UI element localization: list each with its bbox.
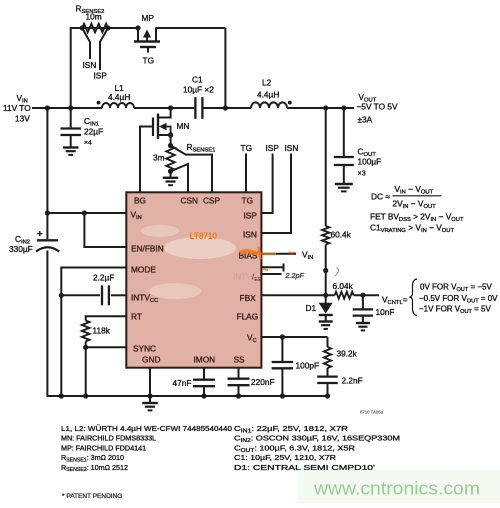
svg-text:220nF: 220nF bbox=[251, 377, 275, 387]
capacitor 2.2nF on VC bbox=[317, 368, 362, 396]
wire top boost rail y=28 bbox=[71, 28, 226, 108]
wire ISP net to IC pin ISP bbox=[261, 154, 272, 214]
svg-text:RT: RT bbox=[131, 312, 142, 322]
svg-text:GND: GND bbox=[142, 355, 160, 365]
capacitor 220nF on SS bbox=[228, 368, 275, 396]
wire kelvin CSP from RSENSE1 top bbox=[171, 146, 213, 193]
transistor MN NMOS bbox=[153, 108, 189, 139]
wire FBX pin line bbox=[261, 294, 334, 296]
node junction VIN pin line left bbox=[45, 210, 50, 215]
svg-text:C1: 10µF, 25V, 1210, X7R: C1: 10µF, 25V, 1210, X7R bbox=[234, 453, 336, 462]
resistor 118k on RT bbox=[82, 321, 111, 342]
resistor 60.4k bbox=[322, 226, 352, 245]
watermark orange mark near INTVEE bbox=[262, 269, 268, 270]
svg-text:×3: ×3 bbox=[358, 169, 366, 178]
wire GND pin to ground rail bbox=[149, 368, 151, 396]
wire ISP kelvin stub from RSENSE2 bbox=[100, 28, 108, 70]
node junction 60.4k column top bbox=[323, 105, 328, 110]
node junction EN/FBIN takeoff bbox=[82, 210, 87, 215]
node junction 100pF on VC bbox=[280, 334, 285, 339]
ground symbol main bbox=[142, 396, 158, 410]
resistor 6.04k bbox=[333, 281, 354, 299]
capacitor COUT 100uF x3 bbox=[334, 108, 381, 184]
svg-text:4.4µH: 4.4µH bbox=[257, 90, 279, 100]
watermark orange scribble over BIAS bbox=[240, 247, 295, 260]
node junction GND pin on rail bbox=[147, 393, 152, 398]
capacitor C1 10uF x2 bbox=[183, 75, 214, 119]
wire ISN net to IC pin ISN bbox=[261, 154, 291, 234]
svg-text:ISP: ISP bbox=[94, 71, 108, 81]
svg-text:BG: BG bbox=[134, 196, 146, 206]
svg-text:±3A: ±3A bbox=[358, 115, 373, 125]
wire VOUT to 60.4k column bbox=[325, 108, 327, 226]
node junction 100pF on ground rail bbox=[280, 393, 285, 398]
svg-text:MP: FAIRCHILD FDD4141: MP: FAIRCHILD FDD4141 bbox=[61, 443, 146, 452]
diode D1 bbox=[306, 295, 333, 315]
capacitor 2.2pF on INTVEE (watermark damaged) bbox=[262, 264, 304, 281]
ground below RSENSE1 bbox=[163, 171, 179, 185]
node junction ground rail x=85 bbox=[83, 393, 88, 398]
svg-text:10m: 10m bbox=[86, 12, 102, 22]
capacitor 10nF on VCNTL bbox=[353, 295, 395, 322]
node junction RSENSE1 top bbox=[168, 143, 173, 148]
wire ISN kelvin stub from RSENSE2 bbox=[82, 28, 90, 59]
ground below CIN1 bbox=[63, 146, 78, 148]
svg-text:FET BVDSS > 2VIN − VOUT: FET BVDSS > 2VIN − VOUT bbox=[370, 212, 464, 224]
svg-text:2.2µF: 2.2µF bbox=[93, 273, 114, 283]
node junction MN drain on rail bbox=[168, 105, 173, 110]
svg-text:100pF: 100pF bbox=[296, 361, 320, 371]
svg-text:39.2k: 39.2k bbox=[337, 349, 358, 359]
capacitor CIN1 22uF x4 bbox=[60, 108, 103, 147]
svg-text:EN/FBIN: EN/FBIN bbox=[131, 244, 164, 254]
svg-text:C1: C1 bbox=[192, 75, 203, 85]
node DC duty-cycle formula bbox=[371, 184, 442, 210]
svg-text:ISN: ISN bbox=[243, 230, 257, 240]
wire VC pin line bbox=[261, 337, 327, 347]
node junction COUT on rail bbox=[341, 105, 346, 110]
svg-text:FLAG: FLAG bbox=[237, 312, 259, 322]
svg-text:MODE: MODE bbox=[131, 265, 156, 275]
watermark www.cntronics.com bbox=[298, 470, 500, 503]
svg-text:3m: 3m bbox=[153, 153, 165, 163]
resistor RSENSE1 3m bbox=[153, 142, 215, 171]
inductor L2 4.4uH bbox=[251, 78, 292, 109]
svg-text:SS: SS bbox=[234, 355, 246, 365]
svg-text:×4: ×4 bbox=[84, 140, 92, 147]
resistor 39.2k on VC bbox=[324, 347, 358, 368]
wire 118k bottom to SYNC line bbox=[85, 341, 87, 347]
svg-text:330µF: 330µF bbox=[9, 244, 33, 254]
svg-text:CSN: CSN bbox=[181, 196, 199, 206]
wire kelvin CSN from RSENSE1 bottom bbox=[171, 164, 189, 192]
node junction CIN1 on rail bbox=[68, 105, 73, 110]
node VCNTL brace and values bbox=[410, 279, 499, 316]
svg-text:CSP: CSP bbox=[203, 196, 221, 206]
svg-text:13V: 13V bbox=[15, 114, 30, 124]
svg-text:−5V TO 5V: −5V TO 5V bbox=[357, 102, 398, 112]
svg-text:4.4µH: 4.4µH bbox=[108, 92, 130, 102]
svg-text:FBX: FBX bbox=[240, 293, 257, 303]
wire ground rail bottom bbox=[47, 395, 327, 397]
svg-text:D1: D1 bbox=[306, 303, 317, 313]
node junction 2.2pF on column bbox=[323, 268, 328, 273]
svg-text:LT8710: LT8710 bbox=[190, 230, 218, 241]
node junction MN source bbox=[168, 132, 173, 137]
svg-text:+: + bbox=[37, 229, 43, 240]
wire VIN rail to VIN pin line bbox=[47, 108, 126, 239]
node junction RSENSE2 left bbox=[80, 25, 85, 30]
resistor RSENSE2 10m bbox=[76, 4, 108, 33]
wire TG net to IC top bbox=[245, 154, 247, 193]
node junction RSENSE1 bottom bbox=[168, 169, 173, 174]
svg-text:* PATENT PENDING: * PATENT PENDING bbox=[62, 493, 122, 500]
svg-text:www.cntronics.com: www.cntronics.com bbox=[313, 479, 480, 499]
svg-text:100µF: 100µF bbox=[358, 157, 382, 167]
node VOUT output label bbox=[357, 92, 398, 125]
svg-text:22µF: 22µF bbox=[84, 127, 103, 137]
svg-text:ISN: ISN bbox=[285, 143, 299, 153]
svg-text:L2: L2 bbox=[262, 78, 272, 88]
svg-text:TG: TG bbox=[241, 143, 253, 153]
wire CIN2 to ground rail bbox=[46, 251, 48, 398]
node VIN input label bbox=[3, 93, 31, 124]
ground below COUT bbox=[335, 183, 353, 185]
node junction SS on rail bbox=[236, 393, 241, 398]
node junction FBX/D1 bbox=[323, 293, 328, 298]
svg-text:60.4k: 60.4k bbox=[331, 230, 352, 240]
watermark pale smudges on IC bbox=[141, 225, 236, 299]
capacitor 47nF on IMON bbox=[173, 368, 216, 396]
wire MODE pin to left column bbox=[61, 268, 126, 398]
transistor MP PMOS bbox=[134, 13, 160, 53]
svg-text:−0.5V FOR VOUT = 0V: −0.5V FOR VOUT = 0V bbox=[419, 294, 498, 305]
svg-text:ISN: ISN bbox=[83, 60, 97, 70]
svg-text:TG: TG bbox=[143, 56, 155, 66]
wire MN source to RSENSE1 bbox=[170, 135, 172, 146]
svg-text:11V TO: 11V TO bbox=[3, 103, 31, 113]
node junction C1 right / top rail drop bbox=[223, 105, 228, 110]
wire main VIN rail y=108 bbox=[32, 107, 354, 109]
svg-text:MN: MN bbox=[177, 121, 190, 131]
svg-text:MP: MP bbox=[142, 13, 155, 23]
node junction MP source on top rail bbox=[135, 25, 140, 30]
node junction SYNC/118k bbox=[83, 345, 88, 350]
wire BIAS pin to VIN net bbox=[261, 253, 296, 255]
svg-text:TG: TG bbox=[242, 196, 254, 206]
node junction 2.2nF on ground rail bbox=[325, 393, 330, 398]
svg-text:MN: FAIRCHILD FDMS8333L: MN: FAIRCHILD FDMS8333L bbox=[61, 434, 156, 443]
svg-text:10µF ×2: 10µF ×2 bbox=[183, 85, 214, 95]
capacitor 2.2uF on INTVCC bbox=[61, 273, 126, 306]
ground below D1 bbox=[319, 315, 333, 329]
svg-text:SYNC: SYNC bbox=[133, 344, 156, 354]
svg-text:47nF: 47nF bbox=[173, 378, 192, 388]
inductor L1 4.4uH bbox=[97, 83, 134, 108]
wire MN gate to BG pin bbox=[140, 127, 153, 193]
svg-text:DC ≈: DC ≈ bbox=[371, 192, 390, 202]
wire SYNC pin to ground rail bbox=[86, 347, 127, 397]
svg-text:10nF: 10nF bbox=[376, 307, 395, 317]
wire RT pin to 118k bbox=[86, 316, 127, 320]
capacitor CIN2 330uF electrolytic bbox=[9, 229, 59, 255]
op-amp U1 LT8710 IC body bbox=[126, 192, 261, 367]
capacitor 100pF bbox=[272, 337, 319, 396]
node faint mark near junction bbox=[335, 268, 339, 277]
wire 6.04k to VCNTL bbox=[354, 294, 380, 296]
wire 60.4k to FBX node bbox=[325, 245, 327, 296]
node junction INTVCC cap left bbox=[59, 293, 64, 298]
svg-text:6.04k: 6.04k bbox=[333, 281, 354, 291]
node junction IMON on rail bbox=[201, 393, 206, 398]
svg-text:2.2nF: 2.2nF bbox=[342, 376, 363, 386]
svg-text:8710 TA05a: 8710 TA05a bbox=[360, 410, 384, 415]
wire EN/FBIN pin wire bbox=[84, 213, 126, 247]
node junction 10nF bbox=[360, 293, 365, 298]
node junction RSENSE2 right bbox=[105, 25, 110, 30]
svg-text:IMON: IMON bbox=[194, 355, 216, 365]
svg-text:118k: 118k bbox=[93, 326, 111, 336]
node junction VIN rail x=47 bbox=[45, 105, 50, 110]
svg-text:L1, L2: WÜRTH 4.4µH WE-CFWI 74: L1, L2: WÜRTH 4.4µH WE-CFWI 74485540440 bbox=[61, 424, 232, 433]
svg-text:ISP: ISP bbox=[244, 211, 258, 221]
svg-text:2.2pF: 2.2pF bbox=[285, 271, 305, 280]
svg-text:ISP: ISP bbox=[266, 143, 280, 153]
ground below 10nF bbox=[356, 322, 370, 324]
node junction ground rail x=61 bbox=[59, 393, 64, 398]
